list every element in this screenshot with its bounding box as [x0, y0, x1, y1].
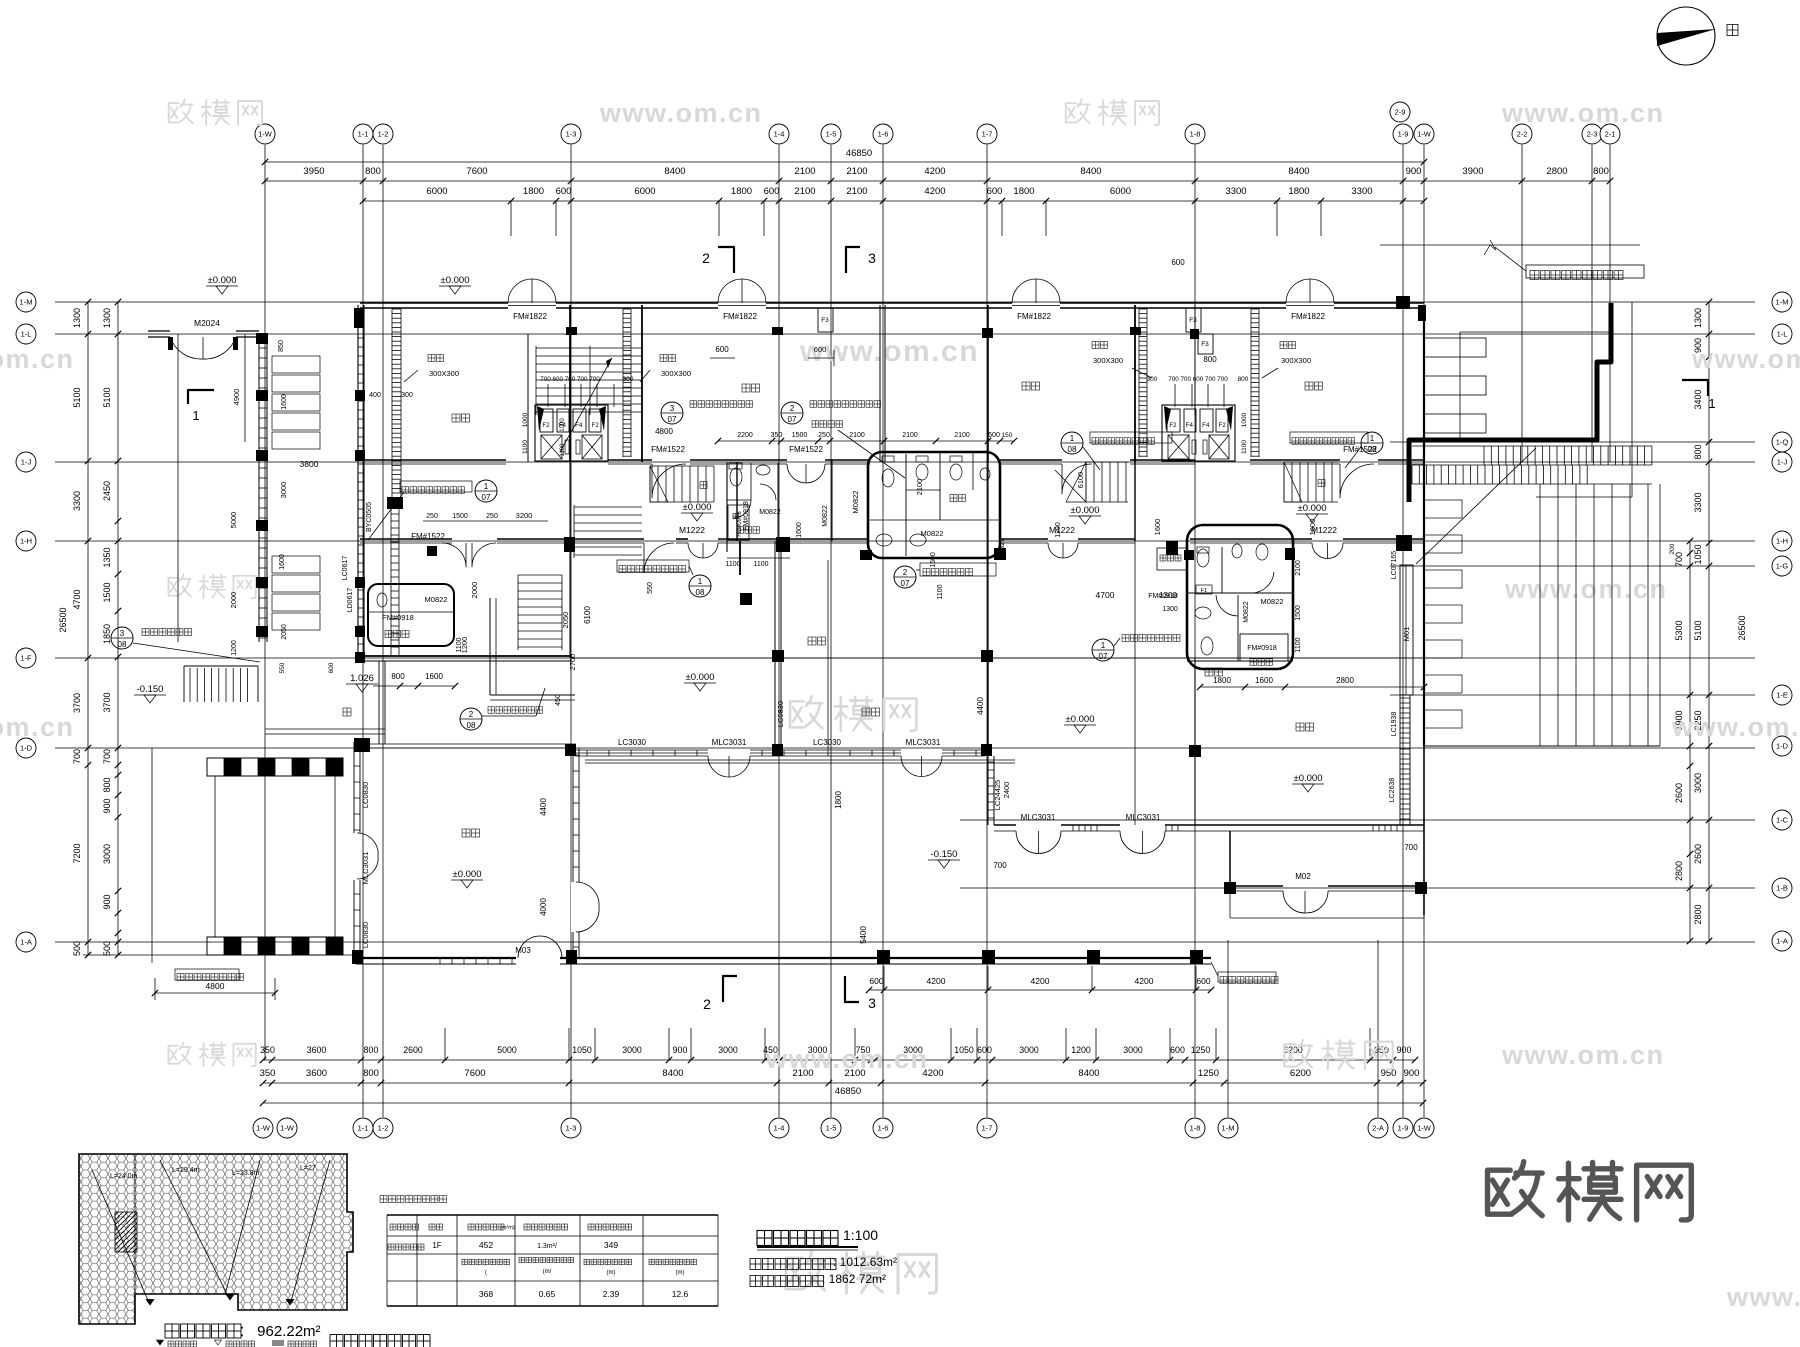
- svg-text:2-1: 2-1: [1605, 130, 1616, 139]
- svg-text:1500: 1500: [1295, 605, 1302, 621]
- svg-text:www.om.cn: www.om.cn: [765, 1044, 929, 1074]
- svg-text:2100: 2100: [1295, 560, 1302, 576]
- svg-text:2-2: 2-2: [1517, 130, 1528, 139]
- svg-text:1350: 1350: [102, 547, 112, 567]
- svg-text:08: 08: [696, 588, 705, 597]
- svg-text:700: 700: [993, 861, 1007, 870]
- svg-text:±0.000: ±0.000: [1071, 505, 1100, 516]
- svg-text:1-M: 1-M: [20, 298, 33, 307]
- svg-text:800: 800: [1238, 376, 1249, 383]
- svg-text:1600: 1600: [1255, 676, 1273, 685]
- svg-text:LC0830: LC0830: [361, 922, 370, 948]
- svg-text:07: 07: [1099, 652, 1108, 661]
- svg-text:07: 07: [668, 415, 677, 424]
- svg-text:1-9: 1-9: [1398, 1124, 1409, 1133]
- svg-text:2600: 2600: [1693, 844, 1703, 864]
- svg-text:2600: 2600: [1674, 783, 1684, 803]
- svg-text:4200: 4200: [927, 976, 946, 986]
- svg-text:1000: 1000: [522, 412, 529, 427]
- svg-text:±0.000: ±0.000: [683, 502, 712, 513]
- svg-text:±0.000: ±0.000: [1066, 714, 1095, 725]
- svg-text:1-5: 1-5: [826, 1124, 837, 1133]
- svg-text:±0.000: ±0.000: [441, 275, 470, 286]
- svg-text:(m/: (m/: [543, 1269, 552, 1275]
- svg-text:7600: 7600: [464, 1068, 485, 1079]
- svg-text:250: 250: [486, 513, 498, 520]
- svg-text:800: 800: [1203, 355, 1217, 364]
- svg-text:±0.000: ±0.000: [1298, 503, 1327, 514]
- svg-text:3: 3: [868, 250, 876, 266]
- svg-text:500: 500: [988, 432, 1000, 439]
- svg-text:4800: 4800: [655, 427, 673, 436]
- svg-text:300: 300: [623, 376, 634, 383]
- svg-text:600: 600: [556, 186, 572, 197]
- svg-text:M1222: M1222: [1049, 525, 1075, 535]
- svg-text:2100: 2100: [902, 432, 918, 439]
- svg-text:3300: 3300: [72, 491, 82, 511]
- svg-text:FM#1522: FM#1522: [651, 445, 685, 454]
- svg-text:349: 349: [604, 1240, 618, 1250]
- svg-text:700: 700: [102, 749, 112, 764]
- svg-text:: 1862 72m²: : 1862 72m²: [822, 1272, 886, 1286]
- svg-text:M0822: M0822: [822, 505, 829, 527]
- svg-text:900: 900: [102, 798, 112, 813]
- svg-text:700 600 700 700 700: 700 600 700 700 700: [540, 376, 600, 383]
- svg-text:M1222: M1222: [679, 525, 705, 535]
- svg-text:(m²m): (m²m): [500, 1225, 515, 1231]
- svg-text:1500: 1500: [930, 552, 937, 568]
- svg-text:08: 08: [1368, 445, 1377, 454]
- svg-text:1-3: 1-3: [566, 130, 577, 139]
- svg-text:2-9: 2-9: [1395, 108, 1406, 117]
- svg-text:M03: M03: [515, 946, 531, 955]
- svg-text:LC2638: LC2638: [1389, 778, 1396, 803]
- svg-text:2100: 2100: [846, 186, 867, 197]
- svg-text:±0.000: ±0.000: [686, 672, 715, 683]
- svg-text:1050: 1050: [954, 1045, 974, 1055]
- svg-text:6100: 6100: [583, 606, 592, 624]
- svg-text:M0822: M0822: [921, 529, 944, 538]
- svg-text:800: 800: [363, 1068, 379, 1079]
- svg-text:1: 1: [484, 482, 489, 491]
- svg-text:1.026: 1.026: [350, 673, 374, 684]
- svg-text:300: 300: [1147, 376, 1158, 383]
- svg-text:300X300: 300X300: [429, 369, 459, 378]
- svg-text:6000: 6000: [1110, 186, 1131, 197]
- svg-text:1500: 1500: [102, 582, 112, 602]
- svg-text:MLC3031: MLC3031: [361, 852, 370, 885]
- svg-text:1-7: 1-7: [982, 1124, 993, 1133]
- svg-text:MLC3031: MLC3031: [906, 738, 941, 747]
- svg-text:350: 350: [771, 432, 783, 439]
- svg-text:LC0830: LC0830: [776, 701, 785, 727]
- svg-text:3000: 3000: [1693, 773, 1703, 793]
- svg-text:400: 400: [369, 392, 381, 399]
- svg-text:5100: 5100: [102, 387, 112, 407]
- svg-text:4700: 4700: [72, 589, 82, 609]
- svg-text:1-1: 1-1: [358, 1124, 369, 1133]
- svg-text:F2: F2: [592, 422, 600, 429]
- svg-text:1-B: 1-B: [1776, 884, 1788, 893]
- svg-text:M2024: M2024: [194, 318, 220, 328]
- svg-text:3300: 3300: [1693, 492, 1703, 512]
- svg-text:3000: 3000: [279, 482, 288, 499]
- svg-text:600: 600: [328, 662, 335, 673]
- svg-text:2100: 2100: [794, 166, 815, 177]
- svg-text:0.65: 0.65: [539, 1289, 556, 1299]
- svg-text:FM#0918: FM#0918: [737, 511, 743, 537]
- svg-text:1800: 1800: [1288, 186, 1309, 197]
- svg-text:300X300: 300X300: [1281, 356, 1311, 365]
- svg-text:L=29.4m: L=29.4m: [172, 1167, 200, 1174]
- svg-text:±0.000: ±0.000: [1294, 773, 1323, 784]
- svg-text:1200: 1200: [1071, 1045, 1091, 1055]
- svg-text:1600: 1600: [1153, 519, 1162, 536]
- svg-text:1300: 1300: [1159, 591, 1177, 600]
- svg-text:1: 1: [698, 577, 703, 586]
- svg-text:±0.000: ±0.000: [453, 869, 482, 880]
- svg-text:FM#0918: FM#0918: [1247, 645, 1277, 652]
- svg-text:1F: 1F: [432, 1241, 441, 1250]
- svg-text:3000: 3000: [102, 844, 112, 864]
- svg-text:FM#1822: FM#1822: [723, 312, 757, 321]
- svg-text:1-L: 1-L: [21, 330, 32, 339]
- svg-text:1: 1: [1708, 396, 1715, 411]
- svg-text:8400: 8400: [1078, 1068, 1099, 1079]
- svg-text:1-1: 1-1: [358, 130, 369, 139]
- svg-text:1100: 1100: [725, 561, 740, 568]
- svg-text:1: 1: [192, 408, 199, 423]
- svg-text:26500: 26500: [58, 607, 68, 632]
- svg-text:www.om.cn: www.om.cn: [1726, 1282, 1800, 1312]
- svg-text:700 700 600 700 700: 700 700 600 700 700: [1168, 376, 1228, 383]
- svg-text:1: 1: [1101, 641, 1106, 650]
- svg-text:6000: 6000: [634, 186, 655, 197]
- svg-text:FM#0918: FM#0918: [382, 613, 414, 622]
- svg-text:700: 700: [72, 749, 82, 764]
- svg-text:2800: 2800: [1546, 166, 1567, 177]
- svg-text:-0.150: -0.150: [931, 849, 958, 860]
- svg-text:1-8: 1-8: [1190, 130, 1201, 139]
- svg-text:2: 2: [469, 710, 474, 719]
- svg-text:L=24.0m: L=24.0m: [110, 1173, 138, 1180]
- svg-text:1-D: 1-D: [1776, 742, 1789, 751]
- svg-text:2: 2: [903, 568, 908, 577]
- svg-text:800: 800: [364, 1045, 379, 1055]
- svg-text:2100: 2100: [846, 166, 867, 177]
- svg-text:1-2: 1-2: [378, 1124, 389, 1133]
- svg-text:4200: 4200: [924, 186, 945, 197]
- svg-text:1600: 1600: [425, 672, 443, 681]
- svg-text:1-4: 1-4: [774, 130, 785, 139]
- svg-text:07: 07: [901, 579, 910, 588]
- svg-text:900: 900: [1406, 166, 1422, 177]
- svg-text:M0822: M0822: [1243, 601, 1250, 623]
- svg-text:2: 2: [790, 404, 795, 413]
- svg-text:850: 850: [278, 340, 285, 352]
- svg-text:1-3: 1-3: [566, 1124, 577, 1133]
- svg-text:600: 600: [764, 186, 780, 197]
- svg-text:08: 08: [1068, 445, 1077, 454]
- svg-text:1-2: 1-2: [378, 130, 389, 139]
- svg-text:F3: F3: [1201, 341, 1209, 348]
- svg-text:8400: 8400: [1080, 166, 1101, 177]
- svg-text:3000: 3000: [622, 1045, 642, 1055]
- svg-text:L=23.8m: L=23.8m: [232, 1170, 260, 1177]
- svg-text:3700: 3700: [102, 692, 112, 712]
- svg-text:MLC3031: MLC3031: [1021, 813, 1056, 822]
- svg-text:: 1012.63m²: : 1012.63m²: [833, 1255, 897, 1269]
- svg-text:6200: 6200: [1290, 1068, 1311, 1079]
- svg-text:F2: F2: [542, 422, 550, 429]
- svg-text:1-8: 1-8: [1190, 1124, 1201, 1133]
- svg-text:250: 250: [818, 432, 830, 439]
- svg-text:800: 800: [1593, 166, 1609, 177]
- svg-text:3950: 3950: [303, 166, 324, 177]
- svg-text:1800: 1800: [834, 791, 843, 809]
- svg-text:2100: 2100: [915, 479, 924, 496]
- svg-text:600: 600: [1171, 258, 1185, 267]
- svg-text:1100: 1100: [456, 637, 463, 652]
- svg-text:1-M: 1-M: [1222, 1124, 1235, 1133]
- svg-text:5100: 5100: [72, 387, 82, 407]
- svg-text:LC07165: LC07165: [1391, 551, 1398, 580]
- svg-text:FM#1822: FM#1822: [1017, 312, 1051, 321]
- svg-text:4900: 4900: [232, 389, 241, 406]
- svg-text:F4: F4: [1186, 422, 1194, 429]
- svg-text:1-6: 1-6: [878, 130, 889, 139]
- svg-text:1-F: 1-F: [20, 654, 32, 663]
- svg-text:1.3m²/: 1.3m²/: [537, 1243, 557, 1250]
- svg-text:800: 800: [365, 166, 381, 177]
- svg-text:800: 800: [102, 777, 112, 792]
- svg-text:250: 250: [426, 513, 438, 520]
- svg-text:1300: 1300: [1162, 606, 1178, 613]
- svg-text:4200: 4200: [1135, 976, 1154, 986]
- svg-text:F2: F2: [1169, 422, 1177, 429]
- svg-text:1-A: 1-A: [1776, 937, 1788, 946]
- svg-text:1100: 1100: [937, 584, 944, 599]
- svg-text:2800: 2800: [1336, 676, 1354, 685]
- svg-text:1-9: 1-9: [1398, 130, 1409, 139]
- svg-text:2100: 2100: [794, 186, 815, 197]
- svg-text:1-J: 1-J: [21, 458, 32, 467]
- svg-text:(m): (m): [607, 1270, 616, 1276]
- svg-text:LC3030: LC3030: [813, 738, 842, 747]
- svg-text:07: 07: [788, 415, 797, 424]
- svg-text:1100: 1100: [753, 561, 768, 568]
- svg-text:8400: 8400: [664, 166, 685, 177]
- svg-text:600: 600: [977, 1045, 992, 1055]
- svg-text:1200: 1200: [231, 640, 238, 656]
- svg-text:M0822: M0822: [1261, 597, 1284, 606]
- svg-text:46850: 46850: [846, 148, 872, 159]
- svg-text:2050: 2050: [281, 624, 288, 640]
- svg-text:3000: 3000: [718, 1045, 738, 1055]
- svg-text:4200: 4200: [924, 166, 945, 177]
- svg-text:2-A: 2-A: [1372, 1124, 1384, 1133]
- svg-text:2800: 2800: [1693, 904, 1703, 924]
- svg-text:4800: 4800: [206, 981, 225, 991]
- svg-text:4400: 4400: [539, 798, 548, 816]
- svg-text:900: 900: [1397, 1045, 1412, 1055]
- svg-text:7200: 7200: [72, 843, 82, 863]
- svg-text:1050: 1050: [1693, 544, 1703, 564]
- svg-text:1-M: 1-M: [1776, 298, 1789, 307]
- svg-text:1300: 1300: [102, 308, 112, 328]
- svg-text:1300: 1300: [72, 308, 82, 328]
- svg-text:1500: 1500: [792, 432, 808, 439]
- svg-text:2000: 2000: [229, 592, 238, 609]
- svg-text:07: 07: [482, 493, 491, 502]
- svg-text:F3: F3: [821, 317, 829, 324]
- svg-text:2-3: 2-3: [1587, 130, 1598, 139]
- svg-text:www.om.cn: www.om.cn: [0, 344, 75, 374]
- svg-text:4200: 4200: [1031, 976, 1050, 986]
- svg-text:1-W: 1-W: [1417, 1124, 1432, 1133]
- svg-text:3: 3: [120, 629, 125, 638]
- svg-text:500: 500: [102, 941, 112, 956]
- svg-text:700: 700: [1404, 843, 1418, 852]
- svg-text:3600: 3600: [307, 1045, 327, 1055]
- svg-text:1850: 1850: [102, 624, 112, 644]
- svg-text:5400: 5400: [859, 926, 868, 944]
- svg-text:1800: 1800: [523, 186, 544, 197]
- svg-text:LC0830: LC0830: [361, 782, 370, 808]
- svg-text:2700: 2700: [568, 654, 577, 671]
- svg-text:5000: 5000: [497, 1045, 517, 1055]
- svg-text:1000: 1000: [560, 418, 566, 432]
- svg-text:1200: 1200: [1055, 522, 1062, 538]
- svg-text:www.om.cn: www.om.cn: [1671, 712, 1800, 742]
- svg-text:8400: 8400: [1288, 166, 1309, 177]
- svg-text:1-4: 1-4: [774, 1124, 785, 1133]
- svg-text:600: 600: [715, 345, 729, 354]
- svg-text:3800: 3800: [300, 459, 319, 469]
- svg-text:3300: 3300: [1225, 186, 1246, 197]
- svg-text:3400: 3400: [1693, 389, 1703, 409]
- svg-text:2: 2: [702, 250, 710, 266]
- svg-text:200: 200: [1669, 543, 1676, 554]
- svg-text:3200: 3200: [516, 511, 533, 520]
- svg-text:M0822: M0822: [759, 509, 781, 516]
- svg-text:1500: 1500: [452, 513, 468, 520]
- svg-text:1-H: 1-H: [20, 537, 32, 546]
- svg-text:1100: 1100: [522, 440, 529, 454]
- svg-text:www.om.cn: www.om.cn: [599, 98, 763, 128]
- svg-text:2450: 2450: [102, 481, 112, 501]
- svg-text:M0822: M0822: [425, 595, 448, 604]
- svg-text:1000: 1000: [1241, 412, 1248, 427]
- svg-text:FM#1522: FM#1522: [789, 445, 823, 454]
- svg-text:2100: 2100: [849, 432, 865, 439]
- svg-text:1600: 1600: [279, 554, 286, 570]
- svg-text:1: 1: [1070, 434, 1075, 443]
- svg-text:46850: 46850: [835, 1086, 861, 1097]
- svg-text:1-7: 1-7: [982, 130, 993, 139]
- svg-text:2200: 2200: [737, 432, 753, 439]
- svg-text:1250: 1250: [1198, 1068, 1219, 1079]
- svg-text:3600: 3600: [306, 1068, 327, 1079]
- svg-text:900: 900: [673, 1045, 688, 1055]
- svg-text:800: 800: [391, 672, 405, 681]
- svg-text:1:100: 1:100: [843, 1227, 878, 1243]
- svg-text:1050: 1050: [572, 1045, 592, 1055]
- svg-text:550: 550: [279, 662, 286, 673]
- svg-text:1100: 1100: [1241, 440, 1248, 454]
- svg-text:MLC3031: MLC3031: [712, 738, 747, 747]
- svg-text:F4: F4: [1202, 422, 1210, 429]
- svg-text:LC24425: LC24425: [993, 780, 1002, 810]
- svg-text:www.om.cn: www.om.cn: [1501, 98, 1665, 128]
- svg-text:LC0617: LC0617: [342, 556, 349, 581]
- svg-text:2100: 2100: [954, 432, 970, 439]
- svg-text:350: 350: [260, 1068, 276, 1079]
- svg-text:3900: 3900: [1462, 166, 1483, 177]
- svg-text:FM#1822: FM#1822: [1291, 312, 1325, 321]
- svg-text:LD0617: LD0617: [347, 588, 354, 613]
- svg-text:2.39: 2.39: [603, 1289, 620, 1299]
- svg-text:2: 2: [703, 996, 711, 1012]
- svg-text:550: 550: [647, 582, 654, 594]
- svg-text:1-W: 1-W: [256, 1124, 271, 1133]
- svg-text:26500: 26500: [1737, 615, 1747, 640]
- svg-text:2000: 2000: [470, 582, 479, 599]
- svg-text:1-Q: 1-Q: [1776, 438, 1789, 447]
- svg-text:3: 3: [868, 995, 876, 1011]
- svg-text:3000: 3000: [1019, 1045, 1039, 1055]
- svg-text:LC1938: LC1938: [1391, 712, 1398, 737]
- svg-text:800: 800: [1693, 444, 1703, 459]
- svg-text:1: 1: [1370, 434, 1375, 443]
- svg-text:1-W: 1-W: [280, 1124, 295, 1133]
- svg-text:www.om.cn: www.om.cn: [1691, 344, 1800, 374]
- svg-text:1-J: 1-J: [1777, 458, 1788, 467]
- svg-text:： 962.22m²: ： 962.22m²: [238, 1323, 321, 1340]
- svg-text:7600: 7600: [466, 166, 487, 177]
- svg-text:3700: 3700: [72, 693, 82, 713]
- svg-text:F2: F2: [1219, 422, 1227, 429]
- svg-text:±0.000: ±0.000: [208, 275, 237, 286]
- svg-text:6000: 6000: [426, 186, 447, 197]
- svg-text:368: 368: [479, 1289, 493, 1299]
- svg-text:2800: 2800: [1674, 861, 1684, 881]
- svg-text:1-C: 1-C: [1776, 816, 1789, 825]
- svg-text:(m): (m): [676, 1270, 685, 1276]
- svg-text:6100: 6100: [1076, 472, 1085, 489]
- svg-text:1800: 1800: [1013, 186, 1034, 197]
- svg-text:(: (: [485, 1270, 487, 1276]
- svg-text:1800: 1800: [1213, 676, 1231, 685]
- svg-text:300X300: 300X300: [661, 369, 691, 378]
- svg-text:www.om.cn: www.om.cn: [0, 712, 75, 742]
- svg-text:1250: 1250: [1191, 1045, 1211, 1055]
- svg-text:1100: 1100: [1295, 637, 1302, 652]
- svg-text:M02: M02: [1295, 872, 1311, 881]
- svg-text:F3: F3: [1189, 317, 1197, 324]
- svg-text:BYC0505: BYC0505: [366, 502, 373, 532]
- svg-text:MLC3031: MLC3031: [1126, 813, 1161, 822]
- svg-text:452: 452: [479, 1240, 493, 1250]
- svg-text:600: 600: [987, 186, 1003, 197]
- svg-text:08: 08: [118, 640, 127, 649]
- svg-text:4400: 4400: [976, 697, 985, 715]
- svg-text:300X300: 300X300: [1093, 356, 1123, 365]
- svg-text:600: 600: [1170, 1045, 1185, 1055]
- svg-text:2600: 2600: [403, 1045, 423, 1055]
- svg-text:5300: 5300: [1674, 620, 1684, 640]
- svg-text:300: 300: [401, 392, 413, 399]
